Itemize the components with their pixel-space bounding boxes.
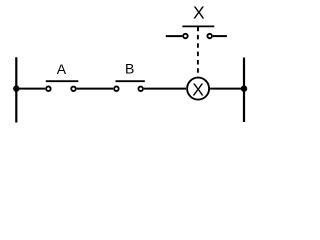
svg-text:X: X	[193, 2, 205, 22]
wire: coil X to right rail	[210, 88, 244, 90]
svg-text:B: B	[125, 61, 134, 77]
switch contact B	[114, 81, 145, 91]
wire: contact A to contact B	[77, 88, 114, 90]
wire: left rail to contact A	[16, 88, 45, 90]
mechanical link (dashed) from contact X to coil X	[197, 35, 199, 78]
junction dot left	[13, 85, 19, 91]
svg-text:A: A	[57, 61, 67, 77]
relay contact X (top)	[166, 26, 227, 38]
right supply rail	[243, 58, 245, 123]
left supply rail	[15, 57, 17, 122]
svg-text:X: X	[192, 79, 204, 99]
wire: contact B to coil X	[144, 88, 186, 90]
switch contact A	[46, 81, 79, 91]
junction dot right	[241, 85, 247, 91]
coil / indicator X	[187, 78, 209, 100]
